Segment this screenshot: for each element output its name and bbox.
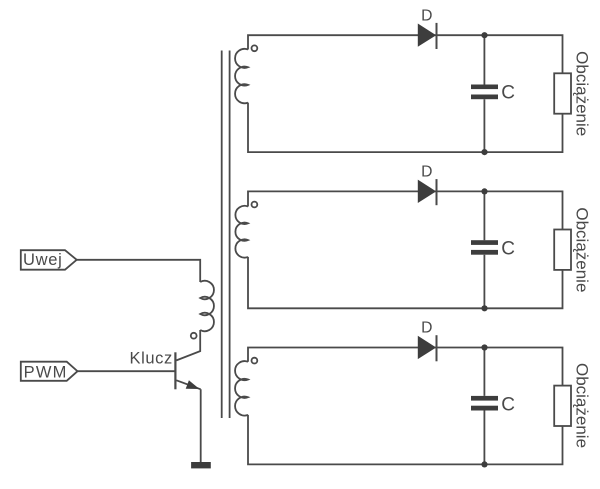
wire Uwej to primary winding (77, 260, 201, 282)
diode D2 cathode bar (436, 179, 438, 205)
primary winding L1 (200, 281, 214, 331)
svg-text:C: C (501, 239, 515, 260)
svg-text:D: D (421, 164, 432, 181)
diode D1 cathode bar (436, 23, 438, 49)
junction dot 1 bottom (481, 149, 487, 155)
wire bottom rail 3 (248, 415, 563, 465)
secondary winding Ls3 (235, 361, 248, 415)
secondary 2 phase dot (252, 202, 258, 208)
wire capacitor branch 3 (483, 348, 485, 465)
primary phase dot (191, 333, 197, 339)
junction dot 2 top (481, 188, 487, 194)
diode D1 triangle (418, 24, 435, 46)
ground (191, 462, 211, 468)
wire top rail 2 (248, 191, 563, 229)
svg-text:D: D (421, 320, 432, 337)
load resistor 1 (554, 73, 571, 113)
load resistor 3 (554, 386, 571, 426)
secondary 3 phase dot (252, 358, 258, 364)
capacitor C2 plates (471, 240, 498, 255)
secondary 1 phase dot (252, 45, 258, 51)
diode D3 triangle (418, 337, 435, 359)
junction dot 1 top (481, 32, 487, 38)
wire bottom rail 1 (248, 103, 563, 153)
diode D2 triangle (418, 181, 435, 203)
svg-text:D: D (421, 7, 432, 24)
transistor Klucz base bar (174, 352, 176, 389)
svg-text:Obciążenie: Obciążenie (572, 363, 591, 448)
wire capacitor branch 2 (483, 191, 485, 308)
load resistor 2 (554, 230, 571, 270)
wire top rail 3 (248, 348, 563, 386)
wire emitter to ground (200, 389, 202, 462)
input flag Uwej (21, 250, 77, 270)
svg-text:Klucz: Klucz (130, 349, 173, 367)
junction dot 3 bottom (481, 461, 487, 467)
svg-text:Obciążenie: Obciążenie (572, 51, 591, 136)
secondary winding Ls2 (235, 206, 248, 258)
svg-text:C: C (501, 83, 515, 104)
svg-text:Obciążenie: Obciążenie (572, 207, 591, 292)
wire capacitor branch 1 (483, 35, 485, 152)
svg-text:C: C (501, 394, 515, 415)
transistor emitter (176, 380, 200, 389)
secondary winding Ls1 (235, 49, 248, 103)
transistor emitter arrow (186, 380, 200, 389)
wire PWM to base (78, 370, 175, 372)
transformer core (222, 51, 230, 419)
wire top rail 1 (248, 35, 563, 73)
svg-text:PWM: PWM (24, 364, 68, 382)
capacitor C3 plates (471, 396, 498, 411)
wire bottom rail 2 (248, 257, 563, 308)
junction dot 2 bottom (481, 305, 487, 311)
svg-text:Uwej: Uwej (23, 251, 62, 269)
junction dot 3 top (481, 344, 487, 350)
capacitor C1 plates (471, 85, 498, 100)
input flag PWM (21, 362, 78, 381)
wire winding to collector (176, 330, 200, 360)
diode D3 cathode bar (436, 335, 438, 361)
